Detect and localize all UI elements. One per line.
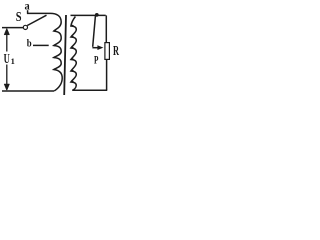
junction node dot (95, 13, 99, 17)
svg-text:a: a (25, 0, 30, 12)
U1 arrowhead up (4, 28, 9, 35)
switch S pivot circle (23, 25, 27, 29)
voltage arrow U1 shaft upper (6, 31, 8, 52)
resistor R box (105, 43, 110, 60)
wire bottom lead of R (106, 59, 108, 90)
wire secondary top to resistor (71, 14, 106, 16)
svg-text:P: P (94, 55, 98, 67)
contact a tick (27, 10, 29, 14)
svg-text:b: b (27, 38, 32, 49)
primary coil cusp knots (54, 30, 56, 70)
voltage arrow U1 shaft lower (6, 65, 8, 87)
wire wiper from junction down (93, 16, 96, 47)
secondary coil winding (first hook + 5 turns + tail) (71, 17, 76, 91)
wire top-left input lead (2, 27, 23, 29)
svg-text:S: S (16, 9, 22, 24)
switch S blade (27, 15, 46, 25)
transformer core (64, 15, 66, 95)
wire contact b stub (33, 44, 49, 46)
wire bottom-right (72, 89, 107, 91)
wire bottom-left input lead (2, 90, 54, 92)
U1 arrowhead down (4, 84, 9, 91)
wire wiper horizontal (92, 47, 98, 49)
svg-text:U: U (4, 52, 10, 67)
primary coil winding (5 turns) with lead from contact a (27, 13, 62, 91)
wiper arrowhead P (97, 45, 103, 50)
svg-text:R: R (113, 44, 120, 59)
wire right vertical top lead of R (105, 15, 107, 42)
svg-text:1: 1 (11, 56, 15, 66)
secondary coil cusp knots (71, 25, 74, 83)
